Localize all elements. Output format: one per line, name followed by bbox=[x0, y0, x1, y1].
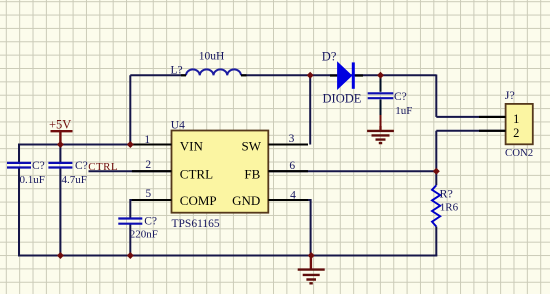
svg-text:CTRL: CTRL bbox=[88, 161, 118, 173]
net label CTRL bbox=[88, 161, 118, 173]
pin number 1 bbox=[144, 134, 150, 146]
wire CTRL row bbox=[89, 170, 172, 172]
capacitor C4 labels bbox=[130, 216, 158, 241]
svg-text:6: 6 bbox=[289, 160, 295, 172]
svg-text:3: 3 bbox=[289, 133, 295, 145]
pin name COMP bbox=[180, 193, 217, 208]
junction +5V/C2 on VIN rail bbox=[57, 141, 64, 148]
svg-text:R?: R? bbox=[440, 187, 453, 201]
svg-text:10uH: 10uH bbox=[199, 50, 225, 62]
wire C2 vertical (through 4.7uF) bbox=[59, 145, 61, 256]
wire inductor row bbox=[130, 74, 436, 76]
connector J1 body bbox=[506, 104, 533, 144]
svg-text:L?: L? bbox=[171, 65, 183, 77]
svg-text:CON2: CON2 bbox=[505, 147, 533, 159]
svg-text:C?: C? bbox=[394, 91, 407, 103]
wire FB row bbox=[268, 170, 436, 172]
pin name CTRL bbox=[180, 167, 213, 182]
capacitor C1 labels bbox=[20, 160, 45, 186]
svg-text:C?: C? bbox=[32, 160, 45, 172]
junction C3 on diode output bbox=[377, 72, 384, 79]
ground below pin4 rail bbox=[298, 256, 325, 284]
svg-text:1R6: 1R6 bbox=[440, 202, 459, 214]
pin number 3 bbox=[289, 133, 295, 145]
pin 2 stub bbox=[132, 170, 172, 172]
svg-text:CTRL: CTRL bbox=[180, 167, 213, 182]
connector pin stubs bbox=[479, 117, 506, 131]
junction ground symbol on rail bbox=[308, 252, 315, 259]
wire diode output vertical to J1 pin1 bbox=[436, 75, 505, 117]
svg-text:COMP: COMP bbox=[180, 193, 217, 208]
svg-text:VIN: VIN bbox=[180, 139, 204, 154]
wire 1uF cap vertical bbox=[380, 75, 382, 130]
wire bottom ground rail bbox=[19, 255, 437, 257]
wire inductor left vertical bbox=[129, 75, 131, 144]
connector pin 1 label bbox=[513, 112, 519, 126]
pin name VIN bbox=[180, 139, 204, 154]
wire top-left VIN rail bbox=[19, 144, 172, 146]
svg-text:4.7uF: 4.7uF bbox=[62, 174, 87, 186]
pin name FB bbox=[244, 167, 260, 182]
svg-text:U4: U4 bbox=[171, 119, 185, 131]
junction C4 on ground rail bbox=[127, 252, 134, 259]
ground below C3 bbox=[367, 126, 394, 143]
wire resistor leads bbox=[435, 171, 437, 255]
resistor R1 zigzag bbox=[432, 185, 440, 226]
svg-text:1uF: 1uF bbox=[395, 105, 412, 117]
svg-text:1: 1 bbox=[513, 112, 519, 126]
connector pin 2 label bbox=[513, 126, 519, 140]
pin 3 stub bbox=[268, 143, 308, 145]
svg-text:DIODE: DIODE bbox=[323, 92, 362, 106]
junction C2 on ground rail bbox=[57, 252, 64, 259]
diode D1 bbox=[330, 62, 363, 88]
pin number 5 bbox=[145, 188, 151, 200]
connector type CON2 bbox=[505, 147, 533, 159]
pin 6 stub bbox=[268, 170, 308, 172]
power +5V symbol bbox=[49, 118, 73, 145]
junction FB node bbox=[433, 168, 440, 175]
resistor labels R? 1R6 bbox=[440, 187, 459, 214]
pin 5 stub bbox=[132, 199, 172, 201]
svg-text:SW: SW bbox=[242, 139, 262, 154]
IC designator U4 bbox=[171, 119, 185, 131]
capacitor C2 labels bbox=[62, 160, 88, 186]
svg-text:0.1uF: 0.1uF bbox=[20, 174, 45, 186]
svg-text:C?: C? bbox=[144, 216, 157, 228]
svg-text:+5V: +5V bbox=[49, 118, 71, 132]
capacitor C1 0.1uF plates bbox=[7, 163, 31, 168]
wire SW pin3 vertical bbox=[309, 75, 311, 144]
pin 4 stub bbox=[268, 199, 308, 201]
svg-text:FB: FB bbox=[244, 167, 260, 182]
inductor labels L? 10uH bbox=[171, 50, 225, 76]
diode labels D? DIODE bbox=[322, 49, 362, 105]
pin number 4 bbox=[290, 189, 296, 201]
svg-text:2: 2 bbox=[145, 159, 151, 171]
svg-text:D?: D? bbox=[322, 49, 337, 63]
pin number 6 bbox=[289, 160, 295, 172]
pin 1 stub bbox=[132, 143, 172, 145]
wire J1 pin2 to FB bbox=[436, 131, 505, 171]
connector designator J? bbox=[505, 88, 515, 102]
svg-text:220nF: 220nF bbox=[130, 229, 158, 241]
svg-text:TPS61165: TPS61165 bbox=[172, 218, 220, 230]
svg-text:5: 5 bbox=[145, 188, 151, 200]
wire left vertical (through C1) bbox=[18, 144, 20, 257]
capacitor C4 220nF plates bbox=[118, 219, 142, 224]
svg-text:1: 1 bbox=[144, 134, 150, 146]
wire GND pin4 to ground bbox=[268, 200, 310, 256]
inductor L1 coil bbox=[181, 69, 247, 75]
svg-text:4: 4 bbox=[290, 189, 296, 201]
capacitor C3 labels bbox=[394, 91, 412, 117]
svg-text:C?: C? bbox=[75, 160, 88, 172]
wire COMP pin5 and C4 vertical bbox=[130, 200, 171, 256]
svg-text:J?: J? bbox=[505, 88, 515, 102]
capacitor C2 4.7uF plates bbox=[48, 163, 72, 168]
capacitor C3 1uF plates bbox=[368, 93, 394, 98]
svg-text:2: 2 bbox=[513, 126, 519, 140]
svg-text:GND: GND bbox=[232, 193, 260, 208]
pin number 2 bbox=[145, 159, 151, 171]
IC part number TPS61165 bbox=[172, 218, 220, 230]
IC U1 TPS61165 body bbox=[172, 131, 269, 213]
junction SW vertical on inductor row bbox=[307, 72, 314, 79]
pin name GND bbox=[232, 193, 260, 208]
pin name SW bbox=[242, 139, 262, 154]
junction inductor vertical on VIN rail bbox=[127, 141, 134, 148]
